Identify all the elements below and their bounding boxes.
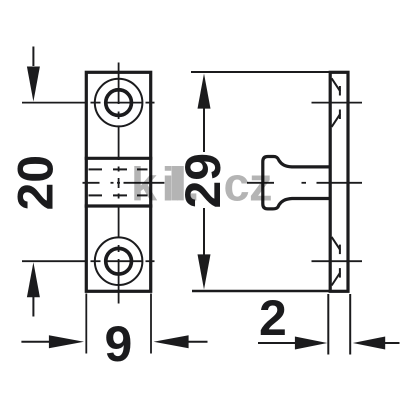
dim 29 extension bottom [192, 290, 330, 292]
dimension texts [7, 153, 287, 372]
dim 29 extension top [191, 71, 330, 73]
svg-text:k: k [131, 157, 158, 210]
centerline vertical front view [118, 63, 120, 304]
dim 2 extension lines [327, 294, 329, 355]
centerline horizontal bottom hole [22, 260, 155, 262]
dim 2 left arrow [258, 337, 327, 350]
side view countersink bottom hole [332, 237, 341, 286]
svg-text:9: 9 [105, 316, 133, 372]
knob [263, 157, 330, 209]
watermark kili.cz [131, 157, 273, 210]
knob axis centerline (dash-dot across both views) [83, 182, 363, 184]
divider line upper [85, 157, 153, 160]
dim 2 right arrow [353, 337, 400, 350]
centerline horizontal top hole [22, 102, 155, 104]
hole top: inner circle [106, 90, 132, 116]
extension lines below front view [85, 294, 87, 354]
dim 9 right arrow [154, 335, 208, 348]
svg-text:z: z [249, 157, 273, 210]
dim 29 dimension line + arrows [198, 74, 211, 290]
divider line lower [85, 204, 153, 207]
front view plate outline [86, 72, 150, 291]
hidden dashed row lower [89, 194, 148, 196]
side view plate outline [330, 72, 348, 291]
svg-text:2: 2 [259, 290, 287, 346]
hidden dashed row upper [89, 168, 148, 170]
side view hole centerline bottom [312, 260, 363, 262]
dim 20 dimension line + arrows [27, 47, 40, 317]
svg-text:20: 20 [7, 155, 63, 211]
hole top: outer circle [95, 79, 143, 127]
hole bottom: inner circle [106, 248, 132, 274]
hole bottom: outer circle [95, 237, 143, 285]
dim 9 left arrow [21, 335, 84, 348]
svg-text:29: 29 [175, 153, 231, 209]
side view countersink top hole [332, 78, 341, 127]
side view hole centerline top [312, 102, 363, 104]
